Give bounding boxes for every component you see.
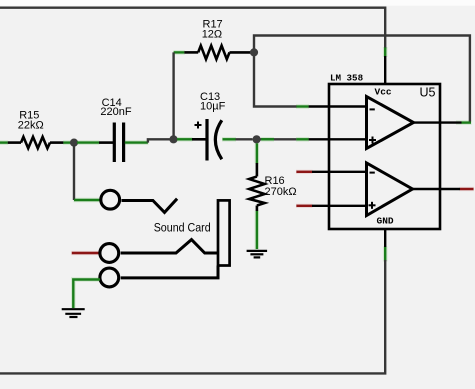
- wire junction to jack tip: [73, 145, 75, 200]
- window edge strip: [0, 0, 475, 6]
- svg-text:12Ω: 12Ω: [202, 29, 222, 41]
- junction R17-feedback: [250, 48, 258, 56]
- op-amp B plus symbol: [369, 204, 376, 206]
- capacitor C13 curved plate: [215, 120, 221, 159]
- jack body bracket: [218, 200, 230, 265]
- jack tip circle: [101, 190, 120, 209]
- jack sleeve wire to body: [121, 266, 218, 278]
- pin U5 input1+ lead: [260, 138, 296, 140]
- wire Vcc top rail: [0, 8, 385, 49]
- svg-text:220nF: 220nF: [100, 106, 131, 118]
- wire R17 to C14/C13 node: [172, 52, 174, 139]
- resistor R16 zigzag: [249, 177, 264, 206]
- lead halos: [0, 47, 474, 309]
- capacitor C13 straight plate: [205, 119, 208, 161]
- junction R15/C14/jack: [70, 139, 78, 147]
- op-amp A minus symbol: [370, 108, 375, 110]
- resistor R15 leads: [0, 141, 8, 143]
- svg-text:LM 358: LM 358: [330, 73, 364, 84]
- ground under jack: [62, 308, 85, 310]
- pin U5 GND lead: [384, 229, 386, 247]
- wire C14 to junction: [148, 139, 170, 142]
- op-amp U5 triangle A: [367, 97, 414, 149]
- svg-text:22kΩ: 22kΩ: [18, 119, 44, 131]
- capacitor C13 plus sign: [195, 124, 202, 126]
- svg-text:U5: U5: [420, 86, 436, 100]
- jack ring circle: [100, 244, 119, 263]
- jack ring stub (unconnected): [72, 252, 99, 255]
- wire GND bottom rail: [0, 260, 385, 373]
- pin U5 output2 lead (unconnected): [412, 188, 460, 190]
- svg-text:270kΩ: 270kΩ: [265, 186, 297, 198]
- pin U5 input2+ lead (unconnected): [296, 205, 312, 207]
- resistor R17 zigzag: [198, 46, 229, 60]
- op-amp U5 box: [329, 84, 440, 229]
- ground under R16: [247, 250, 268, 252]
- capacitor C14 plates: [113, 123, 116, 163]
- wire R17 junction to inverting input: [254, 52, 297, 106]
- svg-text:10µF: 10µF: [200, 101, 226, 113]
- resistor R16 leads: [256, 143, 258, 163]
- resistor R17 leads: [174, 51, 185, 53]
- jack tip contact: [122, 199, 178, 213]
- capacitor C14 leads: [77, 141, 99, 143]
- junction C14/R17/C13: [169, 135, 177, 143]
- svg-text:GND: GND: [377, 216, 394, 227]
- svg-text:Vcc: Vcc: [375, 87, 392, 98]
- op-amp U5 triangle B: [367, 163, 413, 216]
- op-amp A plus symbol: [369, 139, 376, 141]
- jack sleeve circle: [100, 268, 119, 287]
- capacitor C13 leads: [177, 138, 192, 140]
- pin U5 input2- lead (unconnected): [296, 171, 312, 173]
- op-amp B minus symbol: [370, 172, 375, 174]
- jack ring contact: [121, 240, 217, 253]
- svg-text:Sound Card: Sound Card: [154, 221, 211, 235]
- junction C13/R16/opamp: [253, 135, 261, 143]
- pin U5 input1- lead: [296, 105, 308, 107]
- wire feedback loop from R17 to op-amp output: [254, 36, 470, 122]
- jack sleeve wire to ground: [73, 280, 100, 309]
- resistor R15 zigzag: [21, 137, 50, 148]
- pin U5 output1 lead: [413, 121, 462, 123]
- pin U5 Vcc lead: [384, 48, 386, 57]
